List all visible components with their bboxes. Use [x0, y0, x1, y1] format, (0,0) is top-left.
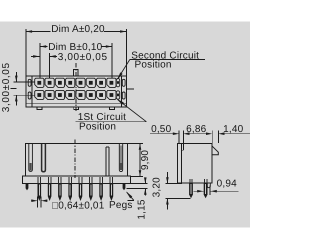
- bottom tab 1: [37, 107, 42, 110]
- svg-text:1,40: 1,40: [223, 124, 244, 135]
- pins: [38, 177, 114, 201]
- slot 4 with inner line: [119, 144, 122, 172]
- gray drawing panel: [0, 22, 250, 228]
- svg-text:Position: Position: [135, 60, 172, 71]
- top slot: [182, 144, 184, 151]
- right peg under base: [123, 184, 126, 191]
- right wall rib top: [122, 79, 125, 86]
- housing inner bottom line: [26, 102, 126, 104]
- slot 3 open-bottom: [105, 147, 107, 176]
- svg-text:□0,64±0,01: □0,64±0,01: [52, 200, 105, 211]
- dimension Dim B: [39, 43, 41, 78]
- svg-text:3,00±0,05: 3,00±0,05: [1, 62, 12, 112]
- dimension 1,15: [131, 183, 148, 185]
- pin cells grid 8 cols x 2 rows: [35, 78, 116, 99]
- slot 1 with dark bottom: [29, 144, 33, 172]
- side peg: [207, 183, 210, 188]
- svg-text:3,00±0,05: 3,00±0,05: [58, 52, 108, 63]
- top notch: [74, 70, 78, 76]
- centerline dash right of housing: [127, 88, 134, 90]
- svg-text:3,20: 3,20: [151, 177, 162, 198]
- dimension 3,20: [165, 182, 182, 184]
- dashed vertical centerline: [75, 63, 77, 111]
- svg-text:Position: Position: [79, 121, 116, 132]
- side body: [178, 144, 213, 184]
- svg-text:0,50: 0,50: [151, 124, 172, 135]
- centerline dash left of housing: [11, 87, 17, 89]
- base flange: [23, 176, 131, 184]
- svg-text:0,94: 0,94: [217, 179, 238, 190]
- svg-text:1,15: 1,15: [137, 199, 148, 220]
- dimension 9,90: [128, 143, 143, 145]
- right wall rib bottom: [122, 92, 125, 99]
- side wall inner line: [180, 144, 182, 184]
- housing inner right wall line: [120, 76, 122, 107]
- side pins: [189, 179, 207, 198]
- svg-text:Dim A±0,20: Dim A±0,20: [51, 24, 105, 35]
- dimension 3,00 pitch: [49, 53, 51, 78]
- dimension square 0,64: [37, 197, 39, 208]
- housing inner left wall line: [31, 76, 33, 107]
- left wall rib top: [28, 79, 31, 86]
- latch: [212, 146, 218, 155]
- dashed centerline front view: [74, 140, 76, 179]
- svg-text:Pegs: Pegs: [109, 200, 133, 211]
- bottom tab 3: [110, 107, 115, 110]
- svg-text:9,90: 9,90: [140, 150, 151, 171]
- left peg under base: [26, 184, 29, 191]
- page background: [0, 0, 250, 250]
- housing outer rectangle: [26, 76, 126, 107]
- front body: [25, 144, 127, 176]
- bottom tab 2: [74, 107, 79, 110]
- dimension 3,00 row spacing vertical: [14, 81, 36, 83]
- dimension Dim A: [25, 29, 27, 76]
- left wall rib bottom: [28, 92, 31, 99]
- right capsule column: [116, 78, 119, 86]
- slot 2: [42, 144, 46, 172]
